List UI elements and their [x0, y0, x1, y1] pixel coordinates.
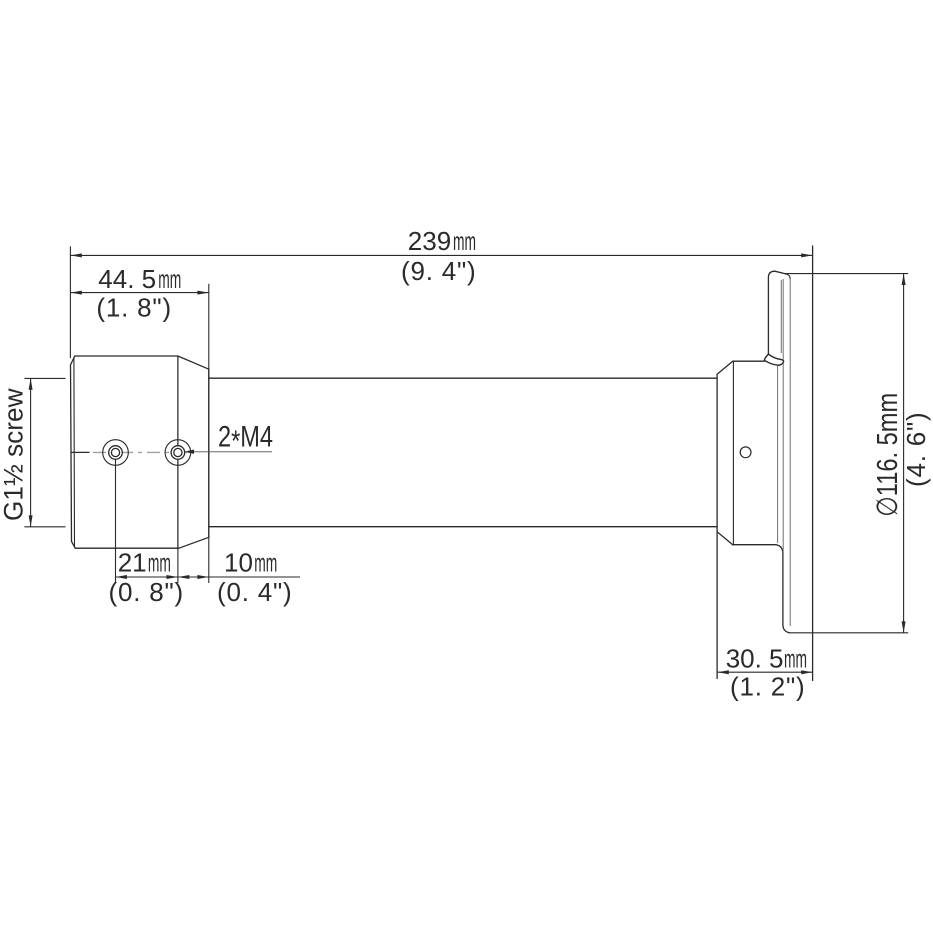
svg-text:(4. 6"): (4. 6") [901, 411, 931, 487]
svg-text:239: 239 [408, 226, 451, 256]
hub chamfer tangent [732, 361, 734, 545]
tube top line [209, 377, 717, 379]
svg-text:mm: mm [453, 226, 476, 256]
svg-text:30. 5: 30. 5 [726, 644, 784, 674]
cap top edge [75, 355, 178, 357]
svg-text:G1½ screw: G1½ screw [0, 388, 29, 521]
svg-text:(0. 8"): (0. 8") [109, 577, 185, 607]
diameter dim [903, 274, 905, 633]
svg-text:mm: mm [254, 548, 277, 578]
leader arrow [184, 450, 194, 454]
gray tangent lines on flange [778, 279, 791, 626]
plate top edge + diameter extension top [785, 273, 908, 275]
dimension lines [24, 246, 903, 672]
tab hook (closed loop, masks lines behind) [764, 354, 783, 365]
tab outer edge [768, 271, 785, 354]
svg-text:2*M4: 2*M4 [218, 421, 273, 459]
plate right face + 239 extension + 30.5 extension [812, 246, 814, 681]
2*M4 leader line [190, 451, 272, 453]
tube bottom line [209, 526, 717, 528]
svg-text:21: 21 [118, 548, 147, 578]
svg-text:(0. 4"): (0. 4") [217, 577, 293, 607]
cap top-right chamfer [178, 356, 209, 369]
plate bottom edge + diameter extension bottom [790, 632, 908, 634]
tab inner edge [780, 280, 782, 353]
239mm dim [70, 254, 812, 256]
plate silhouette upper [782, 279, 784, 552]
hub top-left chamfer [717, 361, 733, 374]
svg-text:44. 5: 44. 5 [98, 264, 156, 294]
hub bottom-left chamfer [717, 532, 733, 545]
plate rim corner top fillet [785, 274, 790, 279]
arrows [29, 253, 906, 674]
svg-text:10: 10 [224, 548, 253, 578]
hub right edge line [777, 366, 779, 544]
svg-text:mm: mm [148, 548, 171, 578]
svg-text:(9. 4"): (9. 4") [401, 256, 477, 286]
svg-text:(1. 2"): (1. 2") [730, 672, 806, 702]
cap left edge outer [71, 356, 76, 548]
hub left edge + 30.5 extension [716, 374, 718, 678]
cap right edge [208, 369, 210, 537]
centerline through screw holes [72, 450, 273, 454]
cap left edge tangent [73, 358, 76, 548]
cap bottom edge [75, 547, 179, 549]
screw holes (drawn after lines so white centers mask) [103, 440, 191, 466]
cap bottom-right chamfer [179, 537, 209, 548]
hub bottom edge with fillet to plate [733, 545, 783, 553]
hub top edge [733, 360, 765, 362]
G1.5 screw dim [24, 377, 65, 379]
svg-text:(1. 8"): (1. 8") [96, 293, 172, 323]
30.5mm dim [717, 671, 812, 673]
plate left silhouette lower with fillet [783, 553, 790, 633]
screw hole extension lines down [116, 356, 209, 583]
hub screw hole [740, 447, 751, 458]
svg-text:∅116. 5mm: ∅116. 5mm [872, 393, 904, 517]
44.5mm dim [70, 292, 208, 294]
cap face/chamfer edge [177, 356, 179, 548]
plate rim tangent line [789, 279, 791, 626]
svg-text:mm: mm [784, 644, 807, 674]
svg-text:mm: mm [158, 264, 181, 294]
21mm / 10mm dims [116, 576, 301, 578]
